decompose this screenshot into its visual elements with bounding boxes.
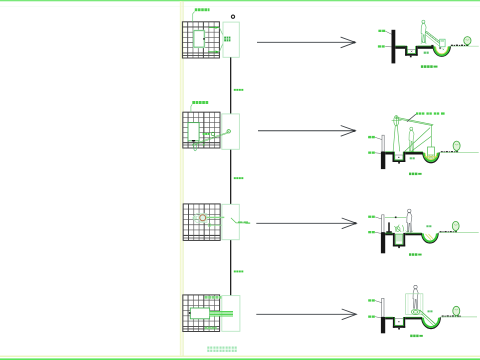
- plan 4 lower text: [205, 327, 217, 330]
- arrow 2 green dashes: [368, 137, 374, 138]
- plan 2 valve symbol below grid: [194, 143, 197, 151]
- sheet title text bottom: [207, 347, 236, 352]
- s4 foot ring: [411, 309, 420, 314]
- s3 gravel speckles: [440, 231, 457, 233]
- s3 ground green line: [438, 231, 478, 233]
- s4 caption text: [410, 335, 423, 338]
- s3 fence post: [382, 215, 384, 233]
- s2 pool bowl: [423, 152, 439, 162]
- callout lines plan1 to marker: [219, 28, 224, 52]
- marker 2 circle with dot: [227, 130, 230, 133]
- flow arrow 3: [256, 218, 356, 229]
- s3 fountain sculpture: [394, 225, 403, 232]
- s1 pool bowl: [433, 46, 450, 56]
- s1 trench bottom tick: [410, 56, 412, 58]
- section marker box 4: [222, 296, 240, 332]
- axis label 2: [234, 177, 244, 179]
- s3 deck slab right: [405, 233, 422, 235]
- s2 deck slab right: [405, 152, 423, 155]
- s3 caption text: [409, 253, 422, 256]
- s3 deck slab left: [385, 233, 393, 235]
- s4 fence post: [382, 298, 384, 317]
- flow arrow 1: [257, 37, 355, 48]
- plan 2 inner label text: [203, 133, 210, 135]
- s1 wall: [392, 30, 396, 64]
- marker 3 leader text dashes: [238, 221, 248, 222]
- marker 1 circle: [231, 15, 234, 18]
- plan 3 lower branch square: [208, 224, 210, 226]
- s4 label upper: [368, 299, 375, 301]
- s3 wall below grade: [381, 232, 385, 253]
- s2 top label leader: [407, 114, 416, 122]
- plan 2 leader to marker circle: [192, 132, 228, 145]
- plan grid 3: [183, 204, 220, 241]
- plan 1 black node dot: [203, 38, 205, 39]
- axis label 1: [234, 89, 244, 91]
- s2 top label text: [416, 112, 445, 114]
- s1 small pool text: [424, 52, 429, 54]
- s4 wall below grade: [381, 317, 385, 333]
- s2 label upper: [368, 136, 375, 138]
- axis wire segment 3: [230, 240, 231, 296]
- marker 1 green hatch block: [224, 37, 230, 42]
- s4 gravel speckles: [442, 315, 461, 317]
- s2 waterwheel: [392, 116, 434, 152]
- s2 trench bottom tick: [398, 162, 400, 164]
- plan 3 planter ring: [199, 214, 207, 222]
- s3 bowl label text: [426, 225, 431, 227]
- s2 caption text: [409, 173, 422, 176]
- s3 label lower: [368, 231, 375, 233]
- section marker box 2: [222, 114, 240, 149]
- sheet faint inner top line: [0, 5, 480, 8]
- s4 glass enclosure: [406, 294, 423, 315]
- s2 ground green line: [439, 151, 478, 153]
- plan 2 inner label circle: [211, 132, 214, 135]
- s3 person foot tufts: [406, 230, 414, 232]
- s1 label lower: [378, 45, 385, 47]
- s2 label lower: [368, 152, 375, 154]
- s1 water jet wedge: [425, 31, 444, 47]
- plan 3 lower branch line: [211, 224, 222, 226]
- s4 person: [413, 285, 418, 308]
- marker 3 bend leader: [231, 218, 250, 223]
- s2 shrub: [453, 141, 460, 152]
- s1 ground green line: [450, 45, 479, 47]
- plan 2 title leader line: [191, 104, 192, 112]
- sheet left edge yellow line A: [180, 1, 182, 356]
- s2 fence post: [382, 135, 384, 151]
- s1 trench green lining: [407, 46, 415, 54]
- s4 trench green lining: [395, 317, 404, 326]
- plan 4 black node dot: [189, 312, 191, 314]
- plan grid 2: [183, 112, 220, 148]
- sheet left edge yellow line B: [182, 1, 185, 356]
- s4 ground green line: [441, 316, 478, 318]
- plan 3 feed line stub inside marker: [222, 216, 224, 218]
- s1 fountain person: [421, 20, 427, 43]
- plan grid 4: [183, 295, 220, 332]
- s1 caption text: [421, 65, 438, 68]
- plan 3 callout halo box: [193, 214, 207, 223]
- s2 label lower leader: [375, 152, 381, 155]
- plan 3 callout chevrons: [194, 216, 198, 220]
- s4 deck slab left: [385, 317, 393, 319]
- s2 trench: [393, 152, 406, 162]
- s1 label upper leader: [386, 31, 392, 34]
- s1 weir box: [440, 39, 445, 47]
- s4 shrub: [453, 306, 460, 316]
- s4 slide label text: [428, 310, 433, 312]
- s2 weir box: [428, 147, 435, 160]
- axis wire segment 1: [230, 57, 231, 114]
- sheet bottom inner yellow line: [0, 356, 480, 357]
- s3 label lower leader: [375, 232, 381, 233]
- s2 deck slab left: [385, 152, 392, 155]
- s3 trench with tank: [393, 233, 405, 248]
- s4 slide chute: [420, 310, 437, 327]
- s2 curb text: [410, 157, 415, 159]
- plan 1 section arrow upper: [209, 26, 220, 29]
- marker 4 striped block: [220, 312, 233, 317]
- plan 4 upper text: [205, 296, 222, 299]
- plan 1 inner pool rectangle: [194, 30, 205, 47]
- sheet bottom border line: [0, 358, 480, 360]
- s3 label upper leader: [375, 217, 382, 219]
- s1 trench: [405, 46, 418, 56]
- flow arrow 3 green stub: [245, 223, 250, 224]
- plan 1 section arrow lower: [208, 51, 219, 54]
- sheet top border line: [0, 0, 480, 1]
- s4 label lower: [368, 316, 375, 318]
- s3 pool bowl: [422, 233, 438, 243]
- plan 1 title text: [195, 8, 210, 11]
- plan 4 green striped channel: [210, 311, 233, 316]
- s3 person: [407, 209, 412, 232]
- s4 trench: [393, 317, 405, 328]
- s2 label upper leader: [375, 137, 382, 139]
- plan 2 black fixture: [192, 140, 195, 142]
- s4 label lower leader: [375, 317, 381, 318]
- s1 gravel speckles: [431, 45, 468, 47]
- flow arrow 2: [258, 126, 355, 137]
- s1 deck slab right: [418, 46, 433, 49]
- s3 dimension line: [385, 217, 406, 219]
- s2 person: [409, 127, 414, 151]
- s1 deck slab left: [395, 46, 405, 49]
- plan 2 leader stub inside marker: [222, 132, 228, 135]
- s4 pool bowl: [422, 317, 441, 328]
- s2 gravel speckles: [441, 151, 458, 153]
- axis wire segment 2: [230, 149, 231, 204]
- section marker box 3: [222, 204, 239, 239]
- plan 3 green feed line: [206, 216, 224, 218]
- plan 2 leader arrowhead: [202, 143, 205, 146]
- plan 1 title leader line: [193, 12, 195, 22]
- s4 deck slab right: [405, 317, 422, 319]
- axis label 3: [234, 271, 244, 273]
- s3 label upper: [368, 216, 375, 218]
- plan 4 inner basin rectangle: [190, 308, 209, 319]
- s3 shrub: [452, 221, 459, 231]
- s1 label lower leader: [385, 46, 391, 48]
- plan 2 inner bed rectangle: [188, 123, 199, 141]
- s2 wall below grade: [381, 152, 385, 170]
- s4 trench bottom tick: [398, 328, 400, 330]
- flow arrow 4: [256, 309, 356, 320]
- s2 trench green lining: [395, 152, 404, 160]
- s4 label upper leader: [375, 301, 382, 303]
- plan 2 title text: [192, 101, 208, 104]
- s1 shrub: [464, 37, 471, 46]
- s1 label upper: [378, 30, 385, 32]
- plan grid 1: [182, 22, 219, 58]
- section marker box 1: [223, 22, 239, 57]
- s3 lamp post: [386, 222, 392, 233]
